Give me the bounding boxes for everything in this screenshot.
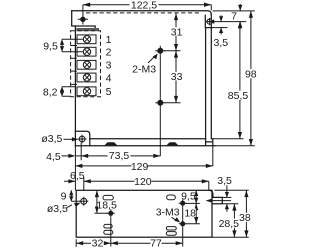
dimension 120	[95, 180, 209, 182]
svg-text:2-M3: 2-M3	[132, 63, 156, 75]
extension flange hole down	[80, 143, 82, 161]
foot tab 1	[104, 142, 117, 145]
svg-text:9: 9	[61, 191, 67, 203]
svg-text:1: 1	[106, 34, 112, 46]
extension hole down	[110, 218, 112, 247]
extension 120 right	[208, 181, 210, 190]
svg-text:18: 18	[184, 207, 196, 219]
M3 hole upper	[157, 48, 163, 54]
svg-text:85,5: 85,5	[228, 90, 249, 102]
extension for 129 right	[212, 146, 214, 166]
M3 hole right lower	[180, 221, 185, 226]
centerline between M3 holes	[159, 56, 161, 98]
dimension 122,5	[83, 4, 211, 6]
terminal 4	[77, 73, 96, 82]
flange hole top-right	[207, 19, 212, 24]
terminal 5	[77, 87, 96, 96]
svg-text:2: 2	[106, 47, 112, 59]
svg-text:8,2: 8,2	[43, 86, 58, 98]
dimension 31	[175, 13, 177, 51]
bottom rail line	[75, 145, 214, 147]
case right wall	[210, 15, 212, 139]
centerline between holes and extension down	[182, 207, 184, 246]
svg-text:3,5: 3,5	[213, 37, 228, 49]
dimension 7	[239, 4, 241, 29]
bottom-left flange	[75, 131, 89, 146]
svg-text:73,5: 73,5	[109, 150, 130, 162]
svg-text:98: 98	[245, 68, 257, 80]
slots pair left	[104, 224, 112, 228]
extension bottom hole up	[83, 178, 85, 191]
extension M3 column down	[159, 108, 161, 157]
terminal cover dashed box	[71, 31, 101, 97]
foot tab 2	[166, 142, 178, 145]
svg-text:5: 5	[106, 86, 112, 98]
M3 hole lower	[157, 100, 163, 106]
case left edge	[74, 26, 76, 146]
flange hole top-left	[80, 17, 85, 22]
dimension 8,2	[62, 87, 76, 97]
svg-text:122,5: 122,5	[131, 0, 157, 12]
svg-text:32: 32	[92, 238, 104, 250]
dimension 129	[75, 165, 212, 167]
dimension 32	[76, 242, 111, 244]
hole ø3,5 bottom view	[81, 198, 87, 204]
terminal 2	[77, 47, 96, 56]
terminal block top gray bar	[76, 28, 99, 31]
svg-text:38: 38	[239, 212, 251, 224]
dimension 9,5 bottom	[195, 190, 197, 203]
svg-text:4,5: 4,5	[46, 151, 61, 163]
M3 hole right upper	[180, 201, 185, 206]
dimension 98	[250, 11, 252, 146]
svg-text:ø3,5: ø3,5	[41, 133, 62, 145]
protrusion arrow	[213, 200, 232, 202]
top-right flange	[205, 15, 212, 27]
svg-text:7: 7	[231, 10, 237, 22]
dimension 18	[186, 203, 200, 223]
dimension 33	[175, 51, 177, 103]
left mounting flange	[72, 11, 96, 29]
svg-text:33: 33	[171, 71, 183, 83]
svg-text:3: 3	[106, 60, 112, 72]
top-right ear	[209, 190, 213, 197]
dimension 38	[245, 190, 247, 237]
case bottom edge	[90, 138, 206, 140]
extension from flange hole up to dim	[82, 5, 84, 15]
right protrusion	[212, 197, 222, 203]
hole centerline with left arrow	[214, 21, 247, 23]
dimension 73,5	[81, 155, 160, 157]
svg-text:18,5: 18,5	[96, 200, 117, 212]
slot top-left	[103, 195, 113, 200]
case top edge	[72, 11, 212, 15]
extension of rail line to 98 dim	[215, 145, 255, 147]
cell divider stubs	[71, 46, 77, 85]
extension bottom edge right	[211, 138, 243, 140]
svg-text:77: 77	[150, 238, 162, 250]
slots pair right	[166, 227, 176, 230]
svg-text:3-M3: 3-M3	[156, 207, 180, 219]
slot top-right	[167, 195, 176, 200]
svg-text:3,5: 3,5	[217, 175, 232, 187]
svg-text:ø3,5: ø3,5	[47, 203, 68, 215]
dimension 77	[111, 242, 183, 244]
svg-text:9,5: 9,5	[43, 41, 58, 53]
extension top edge right	[213, 10, 255, 12]
svg-text:31: 31	[171, 26, 183, 38]
dimension 9,5	[62, 39, 83, 51]
svg-text:120: 120	[134, 176, 152, 188]
svg-text:6,5: 6,5	[70, 170, 85, 182]
svg-text:9,5: 9,5	[181, 191, 196, 203]
svg-text:28,5: 28,5	[219, 218, 240, 230]
M3 hole bottom-left	[108, 211, 113, 216]
svg-text:4: 4	[106, 72, 112, 84]
tick lines at M3 holes	[164, 51, 181, 103]
bottom-right tab	[206, 139, 213, 146]
long extension of case left edge down	[74, 146, 76, 190]
outline	[76, 190, 212, 237]
extension lines right	[214, 189, 248, 191]
extension flange bottom	[213, 27, 228, 29]
dimension 3,5 top right	[220, 15, 222, 34]
extension right corner up	[210, 5, 212, 11]
cover dashed line	[86, 12, 201, 14]
dimension 9	[71, 190, 80, 201]
terminal 3	[77, 60, 96, 69]
dimension 85,5	[239, 22, 241, 139]
svg-text:129: 129	[131, 161, 149, 173]
dimension 18,5	[95, 190, 108, 213]
flange hole bottom-left	[79, 136, 85, 142]
dimension 28,5	[233, 204, 235, 237]
terminal 1	[77, 35, 96, 44]
